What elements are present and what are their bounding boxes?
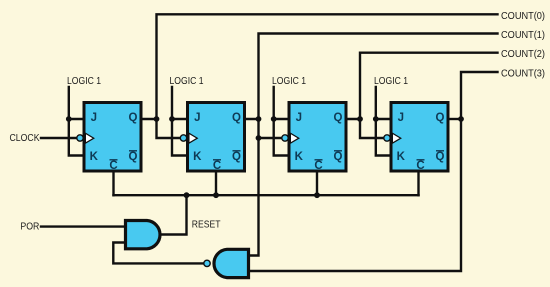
- svg-text:Q: Q: [129, 112, 138, 124]
- wire node COUNT(2) down to FF4 clock: [360, 119, 384, 138]
- junction LOGIC1/J3: [271, 116, 277, 122]
- svg-text:COUNT(3): COUNT(3): [501, 69, 545, 80]
- wire node COUNT(3) up and right: [461, 72, 498, 119]
- wire AND gate output to RESET rail: [162, 195, 187, 234]
- wire LOGIC 1 rail FF4 to J4/K4: [376, 87, 391, 156]
- wire RESET rail: [114, 194, 419, 196]
- wire clock junction to FF3 clock: [259, 137, 282, 139]
- svg-text:COUNT(2): COUNT(2): [501, 49, 545, 60]
- svg-text:K: K: [90, 151, 99, 163]
- junction C3/RESET rail: [314, 192, 320, 198]
- wire LOGIC 1 rail FF3 to J3/K3: [274, 87, 289, 156]
- svg-text:COUNT(1): COUNT(1): [501, 30, 545, 41]
- and-gate G1: [126, 221, 161, 249]
- wire COUNT(1) down to NAND input A: [249, 138, 259, 256]
- svg-text:K: K: [193, 151, 202, 163]
- svg-text:LOGIC 1: LOGIC 1: [272, 76, 306, 87]
- svg-text:POR: POR: [20, 222, 39, 233]
- svg-text:COUNT(0): COUNT(0): [501, 11, 545, 22]
- wire Q2 output stub: [245, 118, 259, 120]
- flip-flop U2: [180, 103, 244, 173]
- wire C1 reset drop: [112, 172, 114, 195]
- svg-text:Q: Q: [232, 112, 241, 124]
- wire node COUNT(1) up and right: [259, 34, 498, 120]
- svg-text:K: K: [295, 151, 304, 163]
- junction LOGIC1/J4: [373, 116, 379, 122]
- svg-text:C: C: [109, 160, 117, 172]
- wire node COUNT(1) down to clock junction: [257, 119, 259, 138]
- wire Q4 output stub: [450, 118, 462, 120]
- wire C2 reset drop: [215, 172, 217, 195]
- svg-text:K: K: [397, 151, 406, 163]
- svg-text:LOGIC 1: LOGIC 1: [170, 76, 204, 87]
- wire LOGIC 1 rail FF1 to J1/K1: [69, 87, 84, 156]
- svg-text:LOGIC 1: LOGIC 1: [67, 76, 101, 87]
- wire C3 reset drop: [316, 172, 318, 195]
- junction Q3/COUNT(2): [357, 116, 363, 122]
- svg-text:Q: Q: [436, 112, 445, 124]
- wire LOGIC 1 rail FF2 to J2/K2: [172, 87, 187, 156]
- svg-text:J: J: [296, 112, 302, 124]
- wire CLOCK input: [41, 137, 77, 139]
- junction Q2/COUNT(1): [256, 116, 262, 122]
- svg-text:C: C: [416, 160, 424, 172]
- svg-text:C: C: [314, 160, 322, 172]
- junction Q4/COUNT(3): [458, 116, 464, 122]
- svg-text:Q: Q: [232, 151, 241, 163]
- svg-text:Q: Q: [436, 151, 445, 163]
- wire C4 reset drop: [417, 172, 419, 195]
- svg-text:J: J: [91, 112, 97, 124]
- wire Q1 output stub: [142, 118, 157, 120]
- svg-text:J: J: [194, 112, 200, 124]
- flip-flop U4: [384, 103, 448, 173]
- svg-text:Q: Q: [334, 151, 343, 163]
- wire node COUNT(2) up and right: [360, 53, 498, 119]
- junction LOGIC1/J2: [169, 116, 175, 122]
- wire node COUNT(0) down to FF2 clock: [157, 119, 181, 138]
- flip-flop U3: [282, 103, 346, 173]
- wire Q3 output stub: [347, 118, 361, 120]
- svg-text:J: J: [398, 112, 404, 124]
- junction C2/RESET rail: [213, 192, 219, 198]
- wire node COUNT(0) up and right: [157, 14, 498, 119]
- svg-text:RESET: RESET: [192, 220, 221, 231]
- junction AND output/RESET rail: [184, 192, 190, 198]
- flip-flop U1: [77, 103, 141, 173]
- wire node COUNT(3) down to NAND input B: [249, 119, 461, 271]
- svg-text:CLOCK: CLOCK: [10, 133, 40, 144]
- junction LOGIC1/J1: [66, 116, 72, 122]
- svg-text:LOGIC 1: LOGIC 1: [374, 76, 408, 87]
- svg-text:Q: Q: [334, 112, 343, 124]
- junction COUNT(1) clock tap: [256, 135, 262, 141]
- svg-text:C: C: [213, 160, 221, 172]
- junction Q1/COUNT(0): [154, 116, 160, 122]
- wire POR input: [41, 225, 125, 227]
- wire NAND output feedback to AND input: [113, 243, 203, 264]
- svg-text:Q: Q: [129, 151, 138, 163]
- nand-gate G2 (mirrored): [204, 249, 249, 277]
